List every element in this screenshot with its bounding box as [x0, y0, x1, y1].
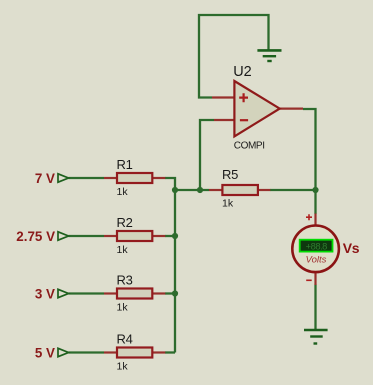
ground (top) — [257, 50, 281, 61]
pin 2 of R2 — [152, 235, 165, 237]
svg-text:R3: R3 — [117, 273, 133, 288]
pin 1 of R1 — [104, 177, 117, 179]
resistor R2 — [104, 215, 165, 256]
wire: R1 row — [69, 177, 105, 179]
svg-text:R2: R2 — [117, 215, 133, 230]
terminal 2.75V — [16, 229, 68, 244]
pin 2 of R5 — [258, 189, 270, 191]
junction node B (inverting input) — [197, 187, 203, 193]
- terminal mark — [306, 279, 312, 281]
svg-text:Vs: Vs — [343, 240, 360, 256]
junction node D (R3) — [172, 290, 178, 296]
op-amp U2 — [212, 64, 303, 152]
wire: node row to R5 — [175, 189, 209, 191]
svg-text:1k: 1k — [117, 361, 129, 373]
svg-text:U2: U2 — [233, 64, 252, 80]
voltmeter body circle — [292, 226, 339, 273]
terminal 7V — [35, 171, 69, 186]
body of R4 — [117, 348, 152, 358]
svg-text:1k: 1k — [117, 186, 129, 198]
body of R5 — [222, 185, 258, 195]
body of R1 — [117, 173, 152, 183]
svg-text:R1: R1 — [117, 157, 133, 172]
pin + (non-inverting input) of U2 — [212, 96, 234, 98]
wire: R4 row — [69, 351, 105, 353]
terminal 5V — [35, 345, 69, 360]
svg-text:1k: 1k — [117, 244, 129, 256]
+ terminal mark — [306, 214, 312, 220]
wire: R5 to meter column — [270, 189, 316, 191]
voltmeter LCD display — [300, 240, 333, 252]
wire: op-amp output to meter column — [303, 109, 316, 214]
pin + of voltmeter Vs — [314, 214, 316, 227]
voltmeter Vs — [292, 214, 359, 286]
resistor R5 — [209, 167, 270, 210]
svg-text:2.75 V: 2.75 V — [16, 229, 55, 244]
junction node A (bus/R5 row) — [172, 187, 178, 193]
U2 + input mark — [239, 93, 248, 102]
wire: R2 row — [69, 235, 105, 237]
svg-text:3 V: 3 V — [35, 286, 55, 301]
wire: R3 row — [69, 292, 105, 294]
resistor R4 — [104, 332, 165, 373]
resistor R1 — [104, 157, 165, 198]
svg-text:1k: 1k — [117, 302, 129, 314]
U2 triangle body — [234, 81, 279, 136]
U2 - input mark — [240, 119, 248, 121]
svg-text:COMPI: COMPI — [234, 141, 265, 152]
resistor R3 — [104, 273, 165, 314]
pin 2 of R4 — [152, 351, 165, 353]
junction node C (R2) — [172, 233, 178, 239]
pin 1 of R2 — [104, 235, 117, 237]
wire: op-amp - input down to node — [200, 120, 214, 190]
wire: vertical bus — [174, 190, 176, 353]
svg-text:R5: R5 — [222, 167, 238, 182]
pin output of U2 — [280, 107, 303, 109]
svg-text:1k: 1k — [222, 198, 234, 210]
pin 1 of R3 — [104, 292, 117, 294]
body of R3 — [117, 289, 152, 299]
pin 1 of R5 — [209, 189, 222, 191]
pin 1 of R4 — [104, 351, 117, 353]
wire: op-amp + input to top ground — [199, 15, 269, 98]
pin 2 of R1 — [152, 177, 165, 179]
ground (bottom) — [304, 330, 328, 344]
svg-text:5 V: 5 V — [35, 345, 55, 360]
pin - (inverting input) of U2 — [214, 119, 234, 121]
wire: meter to ground — [314, 285, 316, 331]
junction node E (meter) — [312, 187, 318, 193]
svg-text:7 V: 7 V — [35, 171, 55, 186]
body of R2 — [117, 231, 152, 241]
pin 2 of R3 — [152, 292, 165, 294]
svg-text:+88.8: +88.8 — [306, 240, 328, 251]
svg-text:Volts: Volts — [306, 255, 327, 266]
svg-text:R4: R4 — [117, 332, 133, 347]
pin - of voltmeter Vs — [314, 272, 316, 285]
terminal 3V — [35, 286, 69, 301]
